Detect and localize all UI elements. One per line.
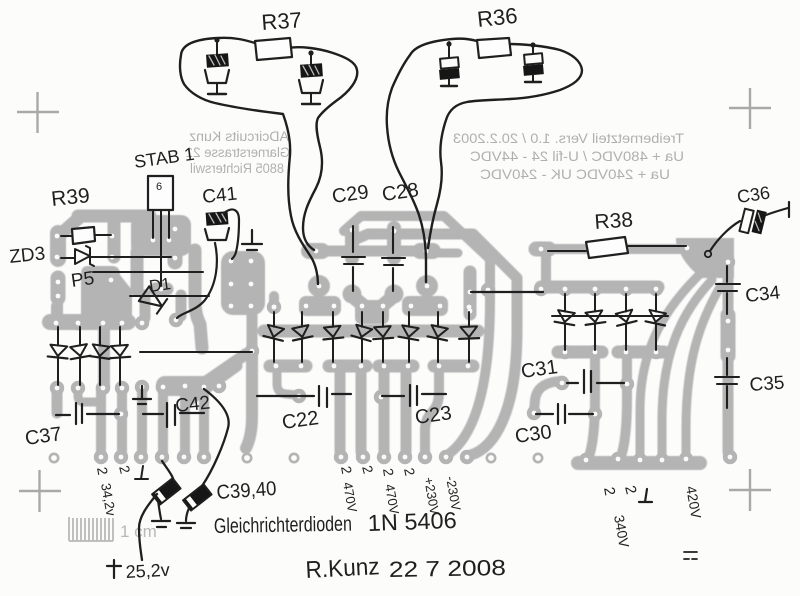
- voltage regulator STAB1 body: [148, 176, 173, 210]
- PCB copper trace layer: [50, 215, 734, 463]
- svg-text:Ua + 480VDC / U-fil 24 - 44VDC: Ua + 480VDC / U-fil 24 - 44VDC: [470, 148, 684, 164]
- wire trace: left pad capsule R39/ZD3: [50, 233, 66, 259]
- zener diode ZD3: [61, 257, 171, 258]
- svg-text:Gleichrichterdioden: Gleichrichterdioden: [214, 513, 352, 538]
- capacitor C32a on R36 loop: [448, 42, 450, 58]
- capacitor C33b (electrolytic on R37 loop): [310, 52, 312, 64]
- scale ruler 1 cm: [69, 517, 113, 541]
- capacitor C31: [567, 370, 624, 393]
- pads (through-holes): [49, 241, 737, 467]
- wire trace: STAB1 pad capsule: [151, 233, 171, 247]
- wire trace: blob center-left: [81, 266, 132, 326]
- registration cross bottom-left: [19, 470, 61, 512]
- capacitor C35: [715, 358, 739, 408]
- resistor R39: [61, 235, 111, 236]
- wire trace: bar below block to bus: [247, 316, 258, 350]
- diode right-1: [564, 294, 566, 312]
- registration cross top-right: [729, 88, 771, 129]
- svg-text:8805 Richterswil: 8805 Richterswil: [190, 161, 284, 176]
- wire trace: curved trace to bottom pad 425: [425, 368, 439, 452]
- wire loop right (R36 net): [387, 39, 582, 282]
- ground symbol under C39: [152, 521, 170, 527]
- junction dot: [214, 37, 219, 42]
- resistor R36 body: [477, 38, 511, 58]
- wire trace: fan curve 3: [640, 272, 702, 459]
- wire trace: stub above pad 274: [269, 296, 279, 307]
- wire trace: C28 stem capsule: [387, 228, 401, 258]
- svg-text:D1: D1: [148, 274, 172, 296]
- wire trace: fan curve 5: [686, 287, 720, 459]
- wire trace: riser from R38 trace to diode band: [541, 252, 551, 284]
- wire trace: wide horizontal bus behind rectifier row: [264, 325, 478, 338]
- wire trace: fan riser 1: [588, 357, 595, 459]
- capacitor C22: [257, 386, 351, 407]
- svg-text:R37: R37: [261, 7, 303, 35]
- unconnected ring pads: [50, 454, 58, 462]
- wire trace: riser above left diode row: [51, 306, 61, 320]
- wire trace: right bottom bar pads: [578, 456, 700, 470]
- wire trace: diagonal B to C42 blob: [190, 366, 237, 400]
- wire trace: bar to pad 204: [199, 389, 209, 452]
- wire trace: bar behind diode 3: [98, 324, 110, 386]
- wire trace: fan curve 4: [662, 280, 712, 459]
- wire W3 to +25,2V: [139, 494, 157, 560]
- svg-text:C39,40: C39,40: [216, 478, 277, 504]
- label +25,2V: [107, 560, 121, 578]
- diode left-4: [119, 327, 121, 346]
- wire trace: vertical from island down to blob: [131, 252, 144, 290]
- wire trace: staircase L1: [344, 216, 490, 453]
- capacitor C33a (electrolytic on R37 loop): [216, 40, 218, 54]
- diode center-7: [437, 312, 439, 327]
- ground symbol center-left: [133, 386, 151, 404]
- wire trace: diagonal into R39 pad: [62, 217, 80, 233]
- wire trace: bar to pad 141: [137, 389, 147, 452]
- svg-text:1N 5406: 1N 5406: [367, 507, 457, 536]
- wire W2 from pad 162: [162, 461, 174, 483]
- registration cross bottom-right: [729, 469, 771, 511]
- svg-text:25,2v: 25,2v: [125, 560, 170, 582]
- diode center-1: [273, 312, 275, 327]
- wire trace: stub below pad 57: [52, 390, 63, 413]
- wire trace: bar descending from bus: [246, 352, 252, 448]
- svg-text:6: 6: [156, 181, 162, 193]
- diode center-2: [301, 312, 303, 327]
- capacitor C37: [56, 403, 119, 424]
- capacitor C30: [536, 404, 593, 424]
- diode left-1: [57, 327, 59, 346]
- wire trace: link pad 78 to bar 101: [78, 390, 98, 402]
- capacitor C32b on R36 loop: [532, 45, 534, 54]
- svg-text:22 7 2008: 22 7 2008: [389, 555, 506, 582]
- diode right-2: [594, 294, 596, 312]
- node: mask pad right (wire D landing): [416, 275, 438, 297]
- svg-text:ADcircuits Kunz: ADcircuits Kunz: [189, 129, 289, 144]
- wire trace: C29 stem capsule: [345, 227, 359, 258]
- diode D1: [130, 295, 209, 297]
- wire to C36: [710, 221, 740, 251]
- ground symbol near C41: [242, 230, 262, 250]
- wire trace: bar to pad 162: [158, 389, 168, 452]
- wire trace: bar to bottom pad 121: [117, 388, 127, 452]
- wire trace: island under STAB1: [131, 215, 191, 256]
- diode left-3: [99, 327, 101, 346]
- wire trace: left diode-row top capsule: [50, 314, 128, 330]
- wire trace: capsule right of R39: [168, 226, 183, 262]
- diode center-3: [332, 312, 334, 327]
- wire trace: vertical between bus and ZD3 pads: [108, 218, 121, 257]
- svg-text:R38: R38: [594, 208, 634, 234]
- svg-text:R36: R36: [476, 3, 519, 32]
- diode left-2: [79, 327, 81, 346]
- svg-text:Glarnerstrasse 21: Glarnerstrasse 21: [186, 145, 290, 160]
- wire trace: vertical bar to bottom pad 341: [335, 369, 346, 452]
- mirrored address text (bleed-through): [186, 129, 290, 176]
- wire: bus line right row: [552, 315, 668, 317]
- node ring at trace end: [705, 251, 711, 257]
- svg-text:R39: R39: [50, 184, 91, 211]
- capacitor C36: [739, 207, 766, 237]
- wire trace: left capsule lower: [51, 278, 66, 298]
- wire trace: U-trace from pad276 to bar: [277, 368, 296, 395]
- wire: C41 plus terminal arc: [224, 209, 239, 259]
- capacitor C23: [382, 385, 446, 406]
- registration cross top-left: [17, 92, 59, 133]
- wire trace: R38 horizontal trace: [541, 244, 688, 254]
- resistor R38: [548, 246, 686, 251]
- wire trace: fan riser 2: [620, 357, 627, 459]
- wire W1 from pad to diode C40: [202, 389, 229, 486]
- diode center-6: [408, 312, 410, 327]
- svg-text:R.Kunz: R.Kunz: [305, 553, 380, 584]
- svg-text:C35: C35: [749, 373, 785, 396]
- wire jumper to right cluster: [471, 291, 543, 293]
- wire trace: bar to pad 142: [140, 295, 151, 318]
- diode right-3: [625, 294, 627, 312]
- capacitor C41 (electrolytic): [206, 211, 229, 226]
- wire trace: top bus y216: [78, 210, 150, 223]
- svg-text:C34: C34: [744, 282, 781, 307]
- wire trace: diagonal A to pad 204: [204, 354, 246, 383]
- svg-text:Treibernetzteil Vers. 1.0 / 20: Treibernetzteil Vers. 1.0 / 20.2.2003: [453, 130, 684, 146]
- wire: bus line from diode row to center: [140, 351, 252, 353]
- wire trace: vertical bar to bottom pad 363: [356, 369, 367, 452]
- capacitor C28: [382, 227, 405, 291]
- svg-text:ZD3: ZD3: [8, 243, 46, 268]
- wire trace: bar to pad 176: [176, 295, 187, 316]
- svg-text:C41: C41: [201, 183, 238, 208]
- wire trace: middle-leg pad: [155, 283, 167, 296]
- node: triangular junction blob: [676, 238, 734, 278]
- ground symbol under C40: [177, 523, 195, 528]
- diode center-5: [382, 312, 384, 327]
- wire trace: bar to bottom pad 101: [96, 388, 106, 452]
- wire trace: vertical bar to bottom pad 405: [401, 369, 412, 452]
- capacitor C29: [342, 226, 365, 291]
- wire trace: right diode-row bottom capsules: [558, 346, 602, 359]
- wire trace: blob at pads 163-204: [156, 376, 212, 396]
- capacitor C42: [143, 403, 204, 427]
- wire trace: stub pad below staircase diagonal: [464, 272, 477, 314]
- diode center-4: [361, 312, 363, 327]
- wire trace: vertical bar left of block: [195, 250, 202, 348]
- mirrored title text (bleed-through): [453, 130, 684, 182]
- wire trace: bar to pad 184: [180, 388, 190, 452]
- diode right-4: [655, 294, 657, 312]
- wire: P5 row line: [93, 271, 203, 273]
- diode C40: [183, 484, 211, 510]
- wire trace: horizontal bus y=251: [311, 246, 433, 257]
- svg-text:P5: P5: [70, 268, 96, 292]
- wire loop left (R37 net): [180, 38, 357, 284]
- diode C39: [152, 478, 180, 504]
- node block: 2x3 pad block left of center: [221, 251, 265, 315]
- wire trace: bottom bridge capsules of rectifier row: [270, 360, 306, 373]
- diode center-8: [468, 312, 470, 327]
- wire trace: vertical bar to bottom pad 384: [379, 369, 390, 452]
- wire trace: C31 hook trace: [534, 381, 562, 411]
- resistor R37 body: [255, 38, 292, 60]
- node: mask pad middle: [343, 285, 362, 304]
- wire trace: right diode-row top band: [541, 281, 658, 294]
- wire trace: vertical trace to C34/C35 column: [723, 260, 734, 452]
- node: mask pad left (wire B landing): [308, 275, 330, 297]
- STAB1 legs: [153, 210, 169, 286]
- wire: C41 to pad: [177, 243, 217, 318]
- wire trace: staircase L2: [352, 234, 517, 455]
- wire trace: staircase L3 short hook to jumper pad: [436, 249, 458, 258]
- svg-text:Ua + 240VDC UK - 240VDC: Ua + 240VDC UK - 240VDC: [480, 166, 670, 182]
- capacitor C34: [716, 266, 740, 314]
